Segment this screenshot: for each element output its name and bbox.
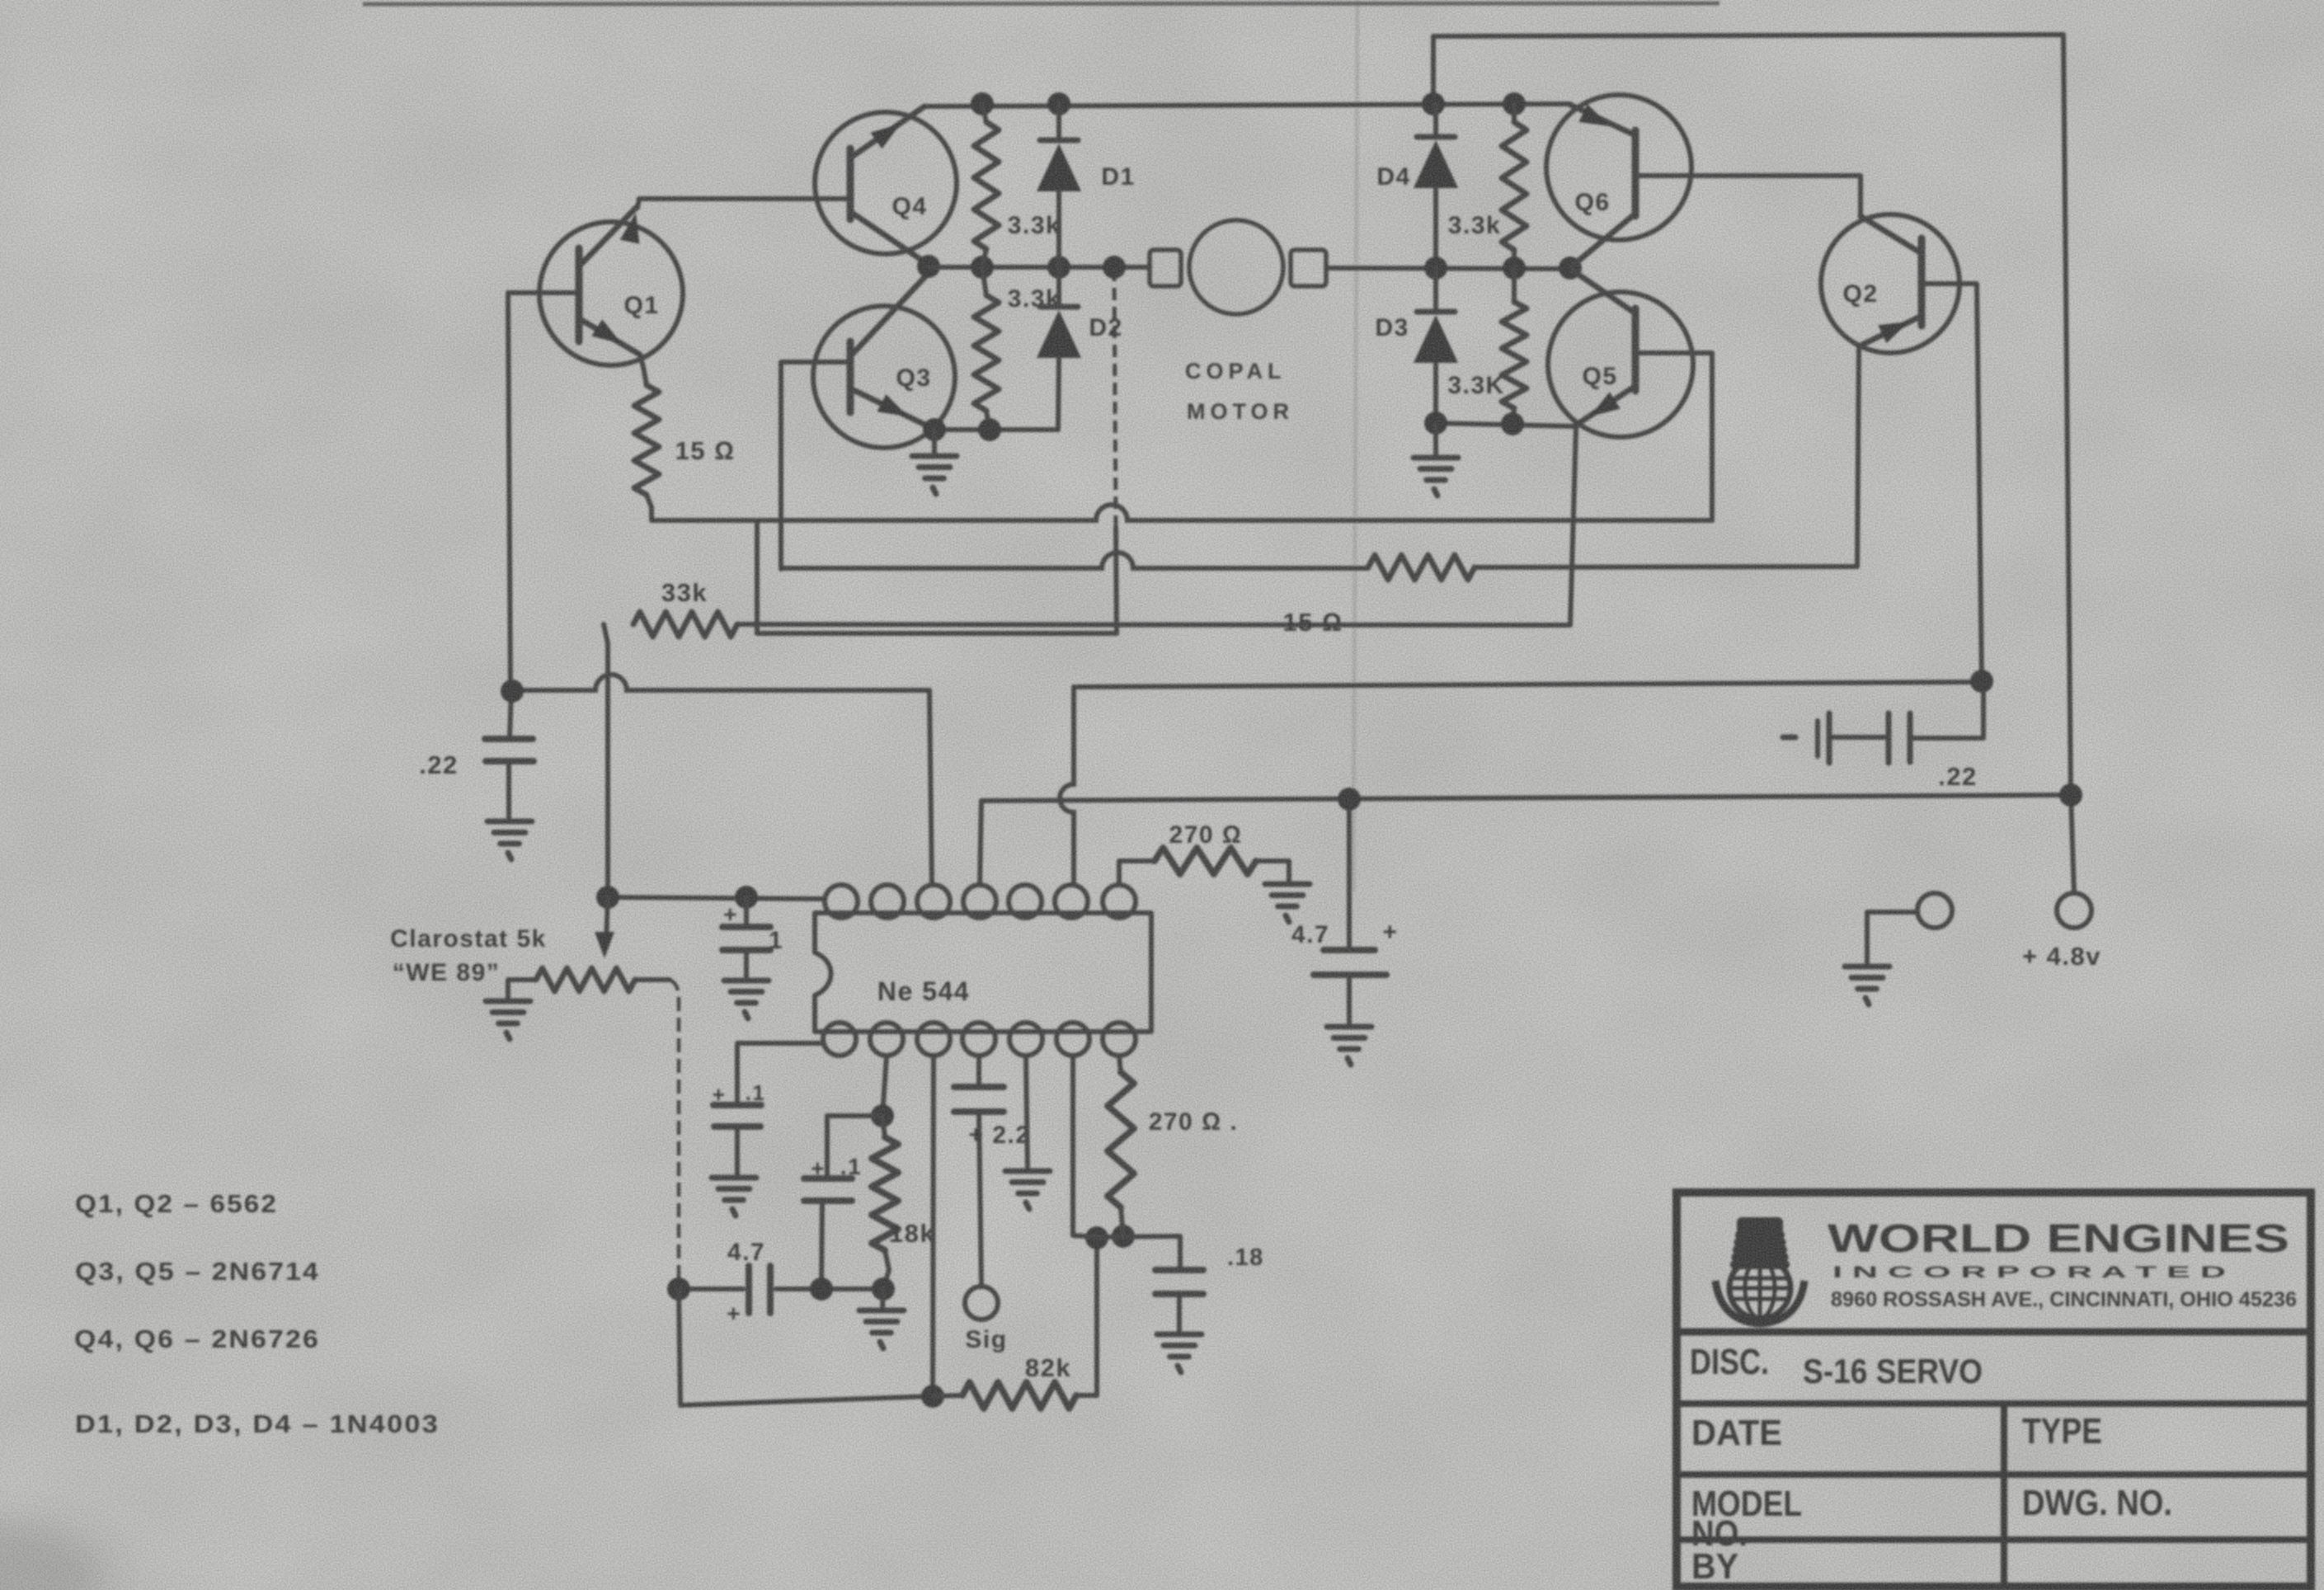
label 4.7 no.1 [727, 1239, 765, 1326]
node rail right Q6 emitter [1559, 256, 1582, 280]
wire motor rail right [1326, 268, 1579, 269]
label D3 [1375, 314, 1409, 341]
label DISC. [1690, 1342, 1769, 1382]
logo World Engines globe [1715, 1217, 1804, 1324]
wire motor rail left [929, 265, 1150, 270]
wire y768 horizontal [757, 631, 1117, 636]
node 33k-pot junction [596, 886, 619, 909]
label 15-ohm no.2 [1283, 608, 1343, 637]
label D1 [1101, 163, 1135, 191]
transistor Q1 [539, 208, 683, 385]
ground below cap 1 [724, 981, 769, 1018]
node 3.3k lower left bottom [978, 418, 1001, 441]
node left column [501, 680, 524, 703]
transistor Q5 [1548, 270, 1693, 437]
wire B right segment [1475, 567, 1857, 567]
resistor 270-ohm no.2 [1108, 1056, 1134, 1236]
label .18 [1227, 1244, 1264, 1271]
terminal ground post [1917, 893, 1952, 928]
IC bottom pin 6 [1056, 1023, 1089, 1056]
transistor Q4 [815, 106, 957, 265]
node rail-3.3k left [971, 256, 994, 279]
label S-16 SERVO [1803, 1352, 1983, 1390]
terminal +4.8v [2057, 893, 2091, 928]
wire IC pin3 top vertical [929, 690, 932, 885]
ground below pot [486, 1001, 530, 1039]
node rail-D column left [1047, 256, 1070, 279]
IC top pin 6 [1055, 885, 1088, 918]
potentiometer Clarostat 5k [508, 897, 679, 1289]
motor left terminal [1150, 250, 1181, 286]
ground below .1 no.1 [712, 1178, 756, 1216]
ground below 18k [859, 1289, 904, 1348]
label WORLD ENGINES [1828, 1217, 2289, 1261]
label legend diodes [75, 1409, 440, 1438]
node pot leg bottom [667, 1277, 690, 1301]
wire IC pin4 top riser [980, 801, 981, 885]
wire node to IC pin1 [608, 897, 825, 899]
resistor 3.3k left lower [974, 267, 999, 430]
node 3.3k right bottom [1501, 412, 1524, 435]
terminal Sig [965, 1287, 998, 1320]
label 2.2 [968, 1122, 1030, 1149]
IC top pin 2 [871, 885, 904, 918]
battery .22 no.2 cell 2 [1889, 713, 1910, 763]
wire rail y968 [981, 795, 2071, 801]
wire pin6 bottom leg [1073, 1056, 1097, 1237]
label cap 1 [723, 901, 783, 954]
resistor 18k [872, 1116, 898, 1289]
wire cross link to .18 [1097, 1236, 1180, 1268]
ground below .18 [1157, 1334, 1202, 1372]
wire Q1 collector to Q4 base [637, 199, 850, 208]
label NO. [1691, 1513, 1748, 1554]
label 3.3k right upper [1448, 212, 1501, 239]
resistor 3.3k left upper [974, 104, 999, 267]
transistor Q6 [1546, 95, 1691, 266]
label BY [1691, 1546, 1738, 1587]
capacitor .1 no.2 [804, 1116, 882, 1289]
IC top pin 3 [917, 885, 950, 918]
label 3.3k left lower [1008, 285, 1061, 313]
resistor 15-ohm no.1 [634, 385, 659, 520]
diode D3 [1414, 268, 1458, 423]
wire IC pin2 bottom drop [882, 1056, 887, 1116]
ground below Q3 [912, 430, 957, 494]
label 15-ohm no.1 [675, 436, 736, 465]
IC top pin 4 [963, 885, 996, 918]
label .22 no.1 [419, 750, 459, 779]
label +4.8v [2022, 942, 2101, 971]
label legend Q4 Q6 [74, 1324, 320, 1353]
resistor 82k [933, 1382, 1097, 1409]
ground below .22 no.1 [487, 821, 532, 859]
wire 33k input leg [604, 624, 608, 897]
IC top pin 5 [1009, 885, 1042, 918]
label DWG. NO. [2022, 1483, 2172, 1523]
wire top rail branch up at D4 column [1431, 36, 1436, 104]
capacitor .18 [1155, 1270, 1203, 1333]
wire +4.8v drop [2071, 795, 2074, 893]
resistor 3.3k right upper [1502, 104, 1527, 268]
wire Q5 base riser [1637, 353, 1712, 520]
wire y837 (node to IC pin3 column) [510, 675, 929, 690]
label D2 [1089, 314, 1122, 341]
transistor Q2 [1821, 214, 1959, 353]
capacitor 4.7 no.2 [1314, 950, 1386, 1024]
IC top pin 1 [825, 885, 858, 918]
label 270-ohm no.1 [1169, 821, 1243, 849]
wire .22 loop right [1910, 683, 1983, 738]
label DATE [1691, 1413, 1782, 1453]
label 270-ohm no.2 [1149, 1108, 1239, 1136]
battery .22 no.2 cell 1 [1818, 713, 1829, 763]
label legend Q1 Q2 [75, 1189, 278, 1218]
wire IC pin5 bottom drop [1026, 1056, 1028, 1168]
resistor 3.3k right lower [1502, 268, 1527, 423]
title block frame [1677, 1192, 2311, 1587]
node rail968 right corner [2059, 783, 2082, 807]
wire IC pin3 bottom drop [933, 1056, 934, 1396]
wire battery middle link [1829, 735, 1889, 740]
label MOTOR [1187, 399, 1294, 424]
ground below pin5 [1005, 1171, 1050, 1209]
capacitor 4.7 no.1 [749, 1266, 770, 1313]
label D4 [1376, 163, 1410, 191]
ground below 270-ohm no.1 [1265, 884, 1310, 922]
capacitor .22 no.1 [485, 691, 534, 818]
IC bottom pin 7 [1103, 1023, 1136, 1056]
diode D2 [1037, 267, 1081, 430]
node Q2 base/.22 [1970, 670, 1993, 693]
wire to 82k row [679, 1289, 933, 1405]
node D3 bottom [1424, 412, 1447, 435]
wire top outer run to right corner [1433, 35, 2071, 794]
wire Q1 base horizontal [508, 290, 579, 295]
node top rail 3.3k left [971, 92, 994, 115]
node 82k riser top [1085, 1226, 1108, 1249]
IC bottom pin 2 [870, 1023, 903, 1056]
ground below 4.7 no.2 [1327, 1027, 1371, 1065]
node rail right D3 [1424, 256, 1447, 280]
label 33k [661, 578, 708, 607]
wire 33k output run [737, 427, 1576, 625]
ground below D3 [1414, 423, 1458, 496]
IC bottom pin 3 [917, 1023, 950, 1056]
capacitor .1 no.1 [713, 1105, 761, 1176]
motor right terminal [1291, 250, 1326, 286]
label COPAL [1185, 359, 1287, 383]
label Ne 544 [877, 976, 970, 1006]
wire 15-ohm no.1 to motor node vertical [755, 520, 760, 633]
label TYPE [2022, 1411, 2102, 1451]
label 3.3K right lower [1447, 372, 1504, 399]
wire ground terminal lead [1867, 912, 1917, 965]
label INCORPORATED [1832, 1264, 2226, 1282]
node top rail D1 [1047, 92, 1070, 115]
IC bottom pin 5 [1009, 1023, 1042, 1056]
wire left column vertical (Q1 base down) [508, 294, 510, 690]
node 18k bottom [872, 1277, 895, 1301]
IC Ne544 body [815, 913, 1151, 1032]
node Q4-emitter/Q3-collector/rail [917, 255, 940, 278]
node 82k left [921, 1385, 944, 1408]
label WE 89 [393, 959, 501, 986]
label Sig [965, 1326, 1007, 1353]
wire rail y513 [1436, 423, 1576, 426]
label Clarostat 5k [390, 925, 547, 953]
wire IC pin6 to .22 node [1074, 682, 1982, 687]
diode D1 [1037, 104, 1081, 267]
label address [1831, 1288, 2297, 1311]
ground symbol right [1845, 967, 1889, 1004]
node cap .1 no.2 bottom [810, 1277, 833, 1301]
label MODEL [1691, 1484, 1802, 1524]
resistor 270-ohm no.1 [1155, 848, 1256, 874]
label .1 no.2 [811, 1154, 862, 1181]
wire top rail [924, 104, 1570, 106]
wire Q3 emitter rail [934, 427, 1058, 432]
node pin2 bottom [871, 1104, 894, 1127]
IC bottom pin 4 [962, 1023, 995, 1056]
wire Q2 base drop [1923, 284, 1982, 680]
node rail-motor drop [1103, 256, 1126, 279]
capacitor 2.2 [954, 1056, 1004, 1286]
wire motor left terminal drop [1114, 269, 1117, 633]
node cap1 top [735, 886, 758, 909]
wire Q6 base to Q2 collector [1637, 176, 1861, 216]
label 3.3k left upper [1008, 212, 1061, 239]
resistor 15-ohm no.2 [1368, 555, 1475, 580]
motor body [1189, 220, 1283, 314]
node 270 no.2 bottom [1112, 1225, 1135, 1248]
transistor Q3 [813, 272, 955, 448]
wire B (Q3 base run) [781, 553, 1368, 568]
wire A (15-ohm to Q5 base) [652, 505, 1712, 520]
IC top pin 7 [1103, 885, 1136, 918]
resistor 33k [633, 612, 737, 637]
capacitor 1 (electrolytic) [722, 897, 770, 978]
wire 270-ohm no.1 to ground [1256, 861, 1289, 882]
wire IC pin1 bottom to cap [737, 1043, 824, 1103]
node rail right 3.3k [1503, 256, 1526, 280]
wire 4.7 no.2 drop [1347, 799, 1352, 948]
IC bottom pin 1 [823, 1023, 856, 1056]
wire Q2 emitter drop [1857, 347, 1859, 567]
wire 82k riser [1094, 1238, 1099, 1395]
label legend Q3 Q5 [75, 1257, 320, 1286]
label .1 no.1 [713, 1080, 766, 1107]
node top rail D4 [1422, 92, 1445, 115]
diode D4 [1414, 104, 1458, 268]
label 4.7 no.2 [1291, 919, 1399, 948]
node rail968 4.7 cap [1338, 788, 1361, 811]
label 82k [1025, 1353, 1071, 1382]
battery .22 no.2 minus sign [1783, 735, 1795, 741]
wire IC pin7 to 270-ohm [1119, 861, 1155, 885]
node Q3 emitter [923, 418, 946, 441]
wire IC pin6 top riser [1060, 687, 1074, 885]
label 18k [889, 1219, 935, 1248]
wire Q3 base leg [781, 362, 850, 569]
node top rail 3.3k right [1503, 92, 1526, 115]
wire y1563 [679, 1287, 883, 1291]
label .22 no.2 [1938, 762, 1978, 791]
